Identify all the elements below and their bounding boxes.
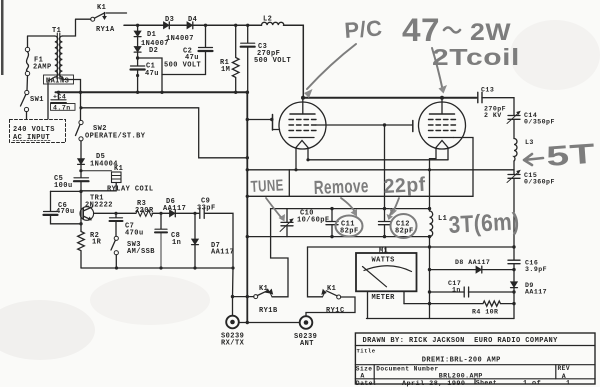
variable capacitor C15: [507, 170, 555, 186]
note 3T(6m): [448, 208, 520, 239]
svg-text:0/360pF: 0/360pF: [524, 179, 555, 186]
note 47 ohm 2W: [402, 12, 511, 94]
node label row: [247, 168, 514, 196]
svg-text:OPERATE/ST.BY: OPERATE/ST.BY: [85, 133, 146, 141]
capacitor C5: [54, 164, 89, 191]
svg-text:DREMI:BRL-200 AMP: DREMI:BRL-200 AMP: [422, 357, 501, 365]
svg-text:1R: 1R: [92, 239, 102, 247]
connector S0239 RX/TX: [221, 268, 245, 348]
svg-text:1 of: 1 of: [523, 379, 541, 387]
diode D9: [511, 282, 547, 296]
svg-text:REV: REV: [558, 365, 571, 372]
capacitor C7: [110, 213, 144, 237]
svg-text:D2: D2: [149, 47, 158, 55]
svg-text:D8 AA117: D8 AA117: [455, 259, 490, 266]
svg-text:Remove: Remove: [313, 176, 369, 199]
capacitor C2: [162, 25, 213, 74]
transformer T1: [52, 27, 62, 79]
wire fuse to SW1: [26, 76, 29, 91]
note Tune: [250, 177, 285, 221]
pencil circle C12: [387, 209, 417, 238]
svg-text:Title: Title: [357, 348, 376, 355]
power rail node: [56, 91, 249, 94]
svg-text:47: 47: [402, 12, 440, 48]
note P/C: [304, 15, 383, 98]
svg-text:240 VOLTS: 240 VOLTS: [13, 126, 55, 134]
resistor R4: [404, 301, 514, 316]
svg-text:100u: 100u: [54, 182, 73, 190]
svg-text:0/350pF: 0/350pF: [524, 119, 555, 126]
svg-text:2W: 2W: [470, 19, 511, 46]
switch SW3: [111, 236, 155, 268]
inductor L1: [428, 209, 448, 319]
svg-text:Sheet: Sheet: [476, 379, 497, 386]
svg-text:ANT: ANT: [300, 340, 314, 348]
title block: [355, 333, 595, 387]
svg-text:5T: 5T: [545, 138, 596, 172]
capacitor C3: [241, 25, 292, 92]
capacitor C1: [131, 63, 159, 93]
svg-text:10/60pF: 10/60pF: [297, 217, 330, 225]
wire SW2 feed with branch: [79, 92, 246, 158]
wire staircase to relay RY1B: [268, 209, 288, 297]
capacitor C17: [430, 280, 515, 297]
note 2T coil: [432, 44, 520, 70]
bottom return line: [367, 318, 515, 320]
wire secondary bottom to rail: [62, 77, 80, 91]
capacitor C12: [379, 209, 414, 237]
svg-text:2Tcoil: 2Tcoil: [432, 44, 520, 70]
svg-text:L3: L3: [525, 139, 534, 146]
main bus vertical: [246, 91, 250, 325]
svg-text:4.7n: 4.7n: [53, 105, 71, 112]
svg-text:D1: D1: [147, 31, 156, 39]
resistor R1: [220, 25, 239, 92]
diode D6: [163, 198, 186, 217]
svg-text:AA117: AA117: [163, 205, 186, 213]
svg-text:WATTS: WATTS: [372, 257, 395, 265]
svg-text:1n: 1n: [172, 239, 181, 247]
pencil circle C11: [336, 216, 363, 237]
wire connector link: [239, 322, 300, 324]
node tube V1 grid bracket: [247, 115, 279, 131]
wire cathode link: [306, 158, 448, 161]
svg-text:MAINS: MAINS: [46, 78, 69, 86]
svg-text:C13: C13: [481, 87, 494, 94]
right chain bus: [512, 98, 515, 319]
svg-text:SW1: SW1: [30, 96, 44, 104]
diode D1: [134, 25, 169, 48]
svg-text:R4 10R: R4 10R: [472, 309, 498, 316]
wire secondary top to RY1A: [62, 19, 90, 36]
resistor R3: [135, 200, 154, 216]
240 volts AC input box: [10, 120, 66, 143]
svg-text:470u: 470u: [56, 208, 75, 216]
diode D3: [164, 16, 175, 29]
ground rail bottom left: [81, 266, 235, 269]
variable capacitor C10: [280, 209, 330, 237]
svg-text:47u: 47u: [145, 70, 159, 78]
handwritten annotations: [250, 12, 596, 239]
svg-text:RY1B: RY1B: [259, 307, 278, 315]
svg-text:2 KV: 2 KV: [484, 112, 502, 119]
svg-text:1: 1: [566, 379, 571, 387]
note arrow 5T: [524, 138, 596, 172]
inductor L3: [514, 139, 534, 162]
wire TR1 output line: [94, 212, 234, 268]
fuse F1: [25, 47, 51, 75]
diode D5: [78, 141, 118, 169]
wire primary bottom to AC box: [48, 77, 55, 119]
svg-text:RY1C: RY1C: [326, 307, 345, 315]
switch SW1: [21, 90, 44, 119]
meter M1: [356, 247, 417, 319]
svg-text:L1: L1: [438, 215, 447, 223]
svg-text:82pF: 82pF: [395, 228, 414, 236]
svg-text:Document Number: Document Number: [376, 366, 438, 373]
capacitor C6: [44, 191, 83, 225]
diode D4: [166, 16, 197, 43]
svg-text:3.9pF: 3.9pF: [525, 266, 547, 273]
svg-text:1N4007: 1N4007: [166, 35, 194, 43]
svg-text:3T(6m): 3T(6m): [448, 208, 520, 239]
svg-text:K1: K1: [97, 4, 106, 12]
capacitor C13: [478, 87, 514, 120]
wire grid feed / C12 column: [384, 125, 386, 209]
HT top rail: [124, 24, 303, 98]
svg-text:Date:: Date:: [356, 380, 377, 387]
svg-text:TUNE: TUNE: [250, 177, 284, 196]
tube V2: [419, 98, 466, 170]
wire meter top line: [308, 246, 515, 248]
svg-text:RY1A: RY1A: [96, 26, 115, 34]
svg-text:AA117: AA117: [211, 249, 234, 257]
svg-text:RYLAY COIL: RYLAY COIL: [107, 186, 154, 194]
svg-text:RX/TX: RX/TX: [221, 340, 245, 348]
note 22pf: [383, 174, 426, 216]
svg-text:P/C: P/C: [344, 15, 384, 43]
capacitor C4: [51, 92, 76, 111]
relay contact K1 RY1C: [306, 247, 355, 316]
switch SW2: [76, 120, 146, 140]
svg-text:M1: M1: [379, 248, 388, 256]
MAINS label: [44, 75, 74, 86]
tube V1: [279, 98, 326, 170]
tank bottom rail: [247, 235, 431, 238]
svg-text:DRAWN BY: RICK JACKSON EURO R: DRAWN BY: RICK JACKSON EURO RADIO COMPAN…: [363, 337, 559, 345]
svg-text:470u: 470u: [125, 230, 144, 238]
wire C1 node to rail jog: [138, 58, 162, 92]
wire V2 cathode tap to row: [430, 138, 474, 197]
wire primary top to fuse: [28, 36, 55, 47]
note Remove: [313, 176, 369, 216]
svg-text:1M: 1M: [221, 66, 230, 74]
capacitor C9: [197, 198, 216, 219]
resistor R2: [78, 230, 102, 268]
svg-text:500 VOLT: 500 VOLT: [254, 57, 291, 65]
relay contact K1 RY1A: [91, 4, 127, 34]
tank top rail: [271, 207, 432, 210]
svg-text:22pf: 22pf: [383, 174, 426, 198]
svg-text:AA117: AA117: [525, 289, 547, 296]
connector S0239 ANT: [294, 316, 317, 348]
transistor TR1: [79, 190, 113, 230]
capacitor C11: [326, 209, 359, 237]
wire 22pf cell right edge / L1 feed: [429, 170, 431, 209]
inductor L2: [262, 16, 284, 26]
diode D8: [430, 259, 515, 273]
variable capacitor C14: [507, 111, 555, 126]
relay contact K1 RY1B: [231, 285, 278, 315]
svg-text:AM/SSB: AM/SSB: [127, 248, 155, 256]
diode D2: [134, 37, 158, 66]
plate rail: [301, 96, 477, 100]
svg-text:2AMP: 2AMP: [33, 64, 52, 72]
relay coil K1: [79, 165, 153, 194]
diode D7: [192, 213, 235, 268]
wire grid bus: [316, 123, 413, 126]
capacitor C8: [155, 213, 181, 268]
node tube V2 grid bracket: [412, 121, 414, 132]
svg-text:500 VOLT: 500 VOLT: [164, 62, 201, 70]
svg-text:April 28, 1990: April 28, 1990: [402, 380, 465, 387]
svg-text:METER: METER: [372, 294, 396, 302]
capacitor C16: [508, 260, 547, 274]
